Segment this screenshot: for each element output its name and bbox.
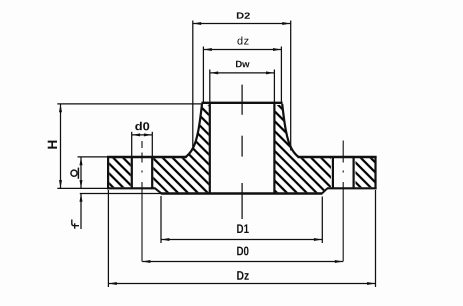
ext: Dz left <box>107 190 109 287</box>
bolt hole center line right (segments) <box>342 141 344 163</box>
ext: Dw right <box>273 70 275 104</box>
flange bottom right run <box>327 187 377 189</box>
bolt hole center line left (segments) <box>141 141 143 148</box>
dim Dw <box>210 72 274 74</box>
flange bottom left run <box>107 187 156 189</box>
ext: D1 left <box>160 196 162 243</box>
label f (drawn glyph: left vertical + bottom bar + tick) <box>72 220 79 229</box>
ext: Dz right <box>375 190 377 287</box>
dim f (arrow from below pointing up) <box>80 194 82 229</box>
dim H <box>60 104 62 188</box>
ext: d0 right <box>151 132 153 157</box>
ext: neck top level to left (for H) <box>57 103 201 105</box>
ext: D1 right <box>321 197 323 244</box>
ext: Dw left <box>209 70 211 104</box>
ext: dz right <box>280 47 282 104</box>
ext: d0 left <box>131 132 133 157</box>
svg-text:Dw: Dw <box>235 59 250 70</box>
dim d0 <box>132 134 152 136</box>
neck top edge <box>201 102 282 104</box>
ext: flange bottom to left (for H and b) <box>57 187 107 189</box>
dim b <box>80 157 82 188</box>
neck outer wall right (taper + fillet) <box>282 104 298 157</box>
flange top left run <box>107 156 187 158</box>
svg-text:d0: d0 <box>135 121 150 133</box>
bolt hole left: edge lines <box>131 157 133 188</box>
ext: D2 right <box>290 21 292 151</box>
neck outer wall left (taper + fillet) <box>186 104 202 157</box>
flange top right run <box>298 156 377 158</box>
svg-text:D0: D0 <box>236 244 249 258</box>
flange right edge <box>374 156 376 189</box>
svg-text:D2: D2 <box>236 11 250 21</box>
bore wall right <box>273 103 275 193</box>
hatch region mid-left (neck + hub + raised face) <box>153 105 208 192</box>
raised face chamfer right <box>322 188 327 193</box>
dim Dz <box>109 283 376 285</box>
hatch region left ring segment <box>109 158 130 187</box>
flange left edge <box>107 156 109 189</box>
bolt hole right: edge lines <box>332 157 334 188</box>
raised face bottom edge <box>161 192 323 194</box>
dim dz <box>204 49 282 51</box>
svg-text:H: H <box>45 140 60 150</box>
ext: D2 left <box>192 21 194 147</box>
ext: flange top to left (for b) <box>78 156 108 158</box>
bore wall left <box>209 103 211 193</box>
hatch region right ring segment <box>356 158 375 187</box>
svg-text:D1: D1 <box>237 222 250 236</box>
ext: raised face bottom to left (for f) <box>80 193 161 195</box>
raised face chamfer left <box>155 188 161 193</box>
hatch region mid-right (neck + hub + raised face) <box>275 105 331 192</box>
dim D0 <box>142 261 343 263</box>
svg-text:dz: dz <box>237 35 249 47</box>
svg-text:Dz: Dz <box>236 269 249 283</box>
ext: dz left <box>202 47 204 104</box>
dim D2 <box>193 23 291 25</box>
label b (drawn glyph: bowl + right stem) <box>71 168 79 179</box>
main center line (dash segments) <box>241 85 243 115</box>
dim D1 <box>161 239 322 241</box>
